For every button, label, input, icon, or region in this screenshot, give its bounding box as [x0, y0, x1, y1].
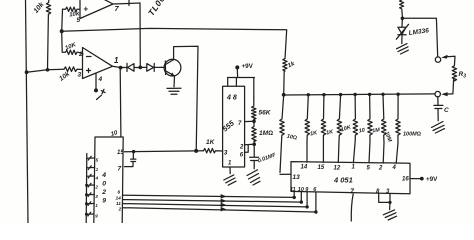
ground Q1 — [167, 88, 181, 94]
resistor bank bus — [284, 94, 436, 95]
node junction on left rail — [25, 70, 29, 74]
wire 555 pin 1 — [229, 167, 231, 174]
wire 4029 jam bus vertical — [85, 154, 88, 224]
svg-text:100MΩ: 100MΩ — [403, 132, 422, 138]
ground capacitor 0.01MF — [247, 170, 260, 185]
resistor bank R4 — [337, 95, 341, 163]
svg-text:3: 3 — [78, 72, 82, 79]
wire pin5 node vertical — [61, 9, 64, 31]
svg-text:2: 2 — [378, 166, 383, 172]
wire long horizontal to resistor bank — [62, 28, 287, 58]
op-amp U1b — [83, 48, 113, 79]
svg-text:+9V: +9V — [426, 176, 438, 183]
svg-text:9: 9 — [95, 214, 98, 219]
svg-text:2: 2 — [78, 51, 83, 58]
wire op-amp U1a output — [113, 3, 140, 4]
capacitor at 4029 pin 7 — [125, 152, 136, 167]
wire to terminal T1 — [402, 18, 437, 57]
svg-text:2: 2 — [239, 145, 244, 151]
svg-text:10: 10 — [298, 187, 304, 193]
node +9V dot — [235, 65, 239, 69]
wire Q1 collector — [174, 46, 198, 151]
svg-text:2: 2 — [101, 189, 106, 196]
svg-text:3: 3 — [224, 150, 228, 157]
svg-text:14: 14 — [301, 165, 308, 171]
wire 4051 pin7 — [351, 194, 353, 221]
capacitor 0.01MF — [250, 144, 259, 169]
svg-text:0: 0 — [102, 181, 106, 188]
pin tick on U1a output — [128, 1, 130, 6]
svg-text:13: 13 — [293, 174, 301, 181]
node dots 4029 left stubs — [85, 184, 88, 187]
svg-text:12: 12 — [334, 166, 341, 172]
node dots on bus — [282, 93, 286, 97]
minus supply tick — [101, 89, 105, 94]
node junction 555 clock line — [194, 149, 198, 153]
svg-text:+9V: +9V — [242, 63, 254, 70]
negative supply slash — [97, 95, 102, 99]
svg-text:4: 4 — [101, 172, 106, 179]
svg-text:2: 2 — [118, 207, 122, 213]
resistor 10K feedback — [62, 31, 83, 54]
arrow marks on Q lines — [221, 194, 226, 211]
svg-text:14: 14 — [116, 195, 122, 201]
wire 4051 pins 8 and 3 — [379, 194, 390, 210]
wire pins 2 and 6 stubs — [245, 144, 255, 152]
minus marker U1b — [87, 56, 92, 58]
svg-text:1: 1 — [95, 203, 98, 208]
node output junction — [119, 66, 123, 70]
op-amp U1a (top, partially cut) — [80, 0, 113, 19]
svg-text:4: 4 — [95, 176, 99, 181]
IC 555 box — [223, 86, 245, 167]
ground LM336 — [397, 44, 409, 54]
wire clock line — [134, 150, 204, 153]
node junction on output wire — [60, 29, 64, 33]
svg-text:1: 1 — [96, 167, 99, 172]
svg-text:9: 9 — [102, 198, 106, 205]
svg-text:1MΩ: 1MΩ — [259, 130, 273, 137]
svg-text:1K: 1K — [206, 139, 216, 146]
svg-text:4: 4 — [98, 76, 103, 83]
resistor bank R8 100M — [396, 94, 400, 163]
wire LM336 to ground — [401, 35, 403, 44]
ground 4051 — [383, 210, 396, 220]
terminal dot pin4 — [94, 88, 98, 92]
svg-text:56K: 56K — [259, 110, 272, 117]
svg-text:7: 7 — [118, 166, 122, 173]
wire 4029 Q3 line — [123, 204, 307, 207]
resistor 10K input (pin 3) — [64, 67, 82, 72]
svg-text:4 8: 4 8 — [226, 95, 237, 102]
wire +9V to 555 — [228, 67, 255, 98]
resistor bank R2 — [305, 95, 309, 162]
svg-text:11: 11 — [116, 201, 121, 207]
diode D1 — [121, 63, 139, 71]
wire to 4029 pin 10 — [119, 68, 122, 137]
wire U1b output — [113, 66, 122, 67]
svg-text:3: 3 — [95, 194, 98, 199]
svg-text:4: 4 — [392, 165, 397, 171]
wire 4051 select stubs — [294, 192, 316, 212]
capacitor C at T2 — [434, 97, 443, 121]
node pin15 junction — [132, 150, 135, 153]
resistor 1K bank feed — [283, 59, 287, 95]
resistor 1K — [204, 149, 223, 153]
resistor bank R5 — [353, 95, 357, 163]
ground 555 pin1 — [224, 175, 236, 185]
diode D2 — [142, 63, 162, 71]
svg-text:C: C — [444, 107, 449, 114]
wire Q1 emitter — [173, 76, 176, 87]
svg-text:1: 1 — [114, 56, 119, 65]
node dots Q line ends — [293, 196, 296, 199]
node LM336 junction — [401, 17, 405, 21]
terminal T2 — [435, 91, 440, 96]
IC 4029 box — [94, 137, 123, 223]
svg-text:15: 15 — [318, 165, 325, 171]
4029 left pin stubs — [87, 156, 95, 160]
terminal T1 — [435, 57, 440, 62]
resistor bank R3 — [321, 95, 325, 163]
svg-text:+: + — [84, 5, 89, 14]
svg-text:5: 5 — [77, 17, 81, 24]
svg-text:15: 15 — [117, 150, 124, 156]
node junction between diodes — [138, 66, 142, 70]
transistor Q1 — [164, 59, 181, 76]
svg-text:16: 16 — [402, 177, 409, 183]
svg-text:4 051: 4 051 — [333, 175, 353, 184]
wire pin 7 stub — [245, 120, 254, 122]
node pin7 junction — [252, 120, 256, 124]
svg-text:5: 5 — [96, 158, 99, 163]
node junction pin3 — [388, 201, 391, 204]
svg-text:6: 6 — [118, 190, 121, 196]
resistor R3 external — [452, 66, 456, 94]
wire 4029 pin15 stub — [125, 151, 134, 153]
wire diode node up — [139, 3, 141, 67]
diode LM336 — [396, 18, 408, 39]
wire 4029 Q4 line — [123, 208, 316, 212]
resistor bank R6 — [368, 94, 372, 162]
resistor 56K — [252, 98, 256, 121]
resistor 1M — [252, 121, 256, 144]
svg-text:11: 11 — [290, 187, 296, 193]
wire 4029 Q2 line — [123, 200, 301, 203]
svg-text:10: 10 — [358, 127, 365, 134]
node pins 2-6 junction — [252, 143, 256, 147]
arrow into T2 — [445, 93, 453, 95]
node +9V dot 4051 — [420, 177, 424, 181]
resistor above LM336 — [400, 0, 404, 17]
resistor 10K top-left — [46, 0, 50, 70]
arrow into T1 — [445, 56, 455, 66]
wire 4051 pin16 stub — [410, 178, 420, 180]
IC 4051 box — [291, 162, 410, 194]
svg-text:2: 2 — [94, 185, 98, 190]
wire left vertical rail — [26, 0, 29, 223]
resistor 10K to U1a pin 5 — [63, 7, 81, 11]
resistor bank R 10ohm — [280, 95, 291, 175]
node junction input bus — [46, 68, 50, 72]
wire input bus to op-amp + input — [27, 69, 64, 72]
resistor bank R7 — [382, 94, 386, 163]
pin 4 wire of U1b — [95, 73, 97, 88]
plus marker U1b — [87, 69, 91, 73]
wire 4029 Q1 line — [123, 195, 294, 197]
ground capacitor C — [432, 122, 445, 134]
